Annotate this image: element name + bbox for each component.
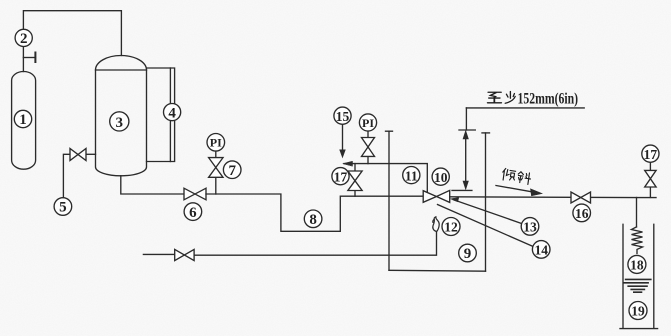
valve under PI right [362,138,375,157]
wire PI-right tap [367,156,369,163]
vessel 3 top seam [96,69,147,71]
gauge PI right [359,114,376,131]
branch header wire [344,164,427,193]
dimension arrow up [463,131,468,139]
valve 6 [184,188,206,200]
valve 5 [70,149,86,161]
label text 倾斜 (drawn glyphs) [502,168,516,181]
svg-text:PI: PI [362,116,374,130]
wire to valve 17 right [649,187,651,197]
node circle 3 [110,112,129,131]
dimension shaft [465,134,467,186]
node circle 17 left [332,168,349,185]
svg-text:1: 1 [19,112,27,128]
valve 17 right [645,170,656,187]
node circle 8 [304,210,322,228]
slope arrow [496,186,534,193]
node circle 2 [15,29,32,46]
node circle 11 [403,167,420,184]
jacket tube 4 [147,68,175,162]
svg-text:8: 8 [309,212,317,228]
pilot valve [175,249,194,260]
test tube walls [622,224,624,328]
svg-text:11: 11 [405,168,418,183]
node circle 9 [459,244,477,262]
node circle 12 [442,218,460,236]
svg-text:16: 16 [575,206,589,221]
cylinder 1 [12,72,36,170]
wire valve5 branch [86,153,96,155]
enclosure right wall [485,133,487,271]
valve 16 [571,192,591,203]
node circle 16 [573,204,591,222]
node circle 1 [14,110,31,127]
dimension text underline [466,107,584,109]
burner valve body [423,190,450,202]
pilot gas line [143,253,174,255]
leader to 14 [438,205,533,247]
dimension upper drop [465,108,467,130]
dimension top tick [459,129,475,131]
node circle 18 [628,255,646,273]
valve 7 (under PI left) [209,158,223,178]
svg-text:12: 12 [444,220,458,235]
dip tube wire [636,198,638,227]
sample line from 15 [342,125,344,151]
svg-text:2: 2 [20,31,28,47]
wire top header from cylinder to vessel [23,11,121,56]
svg-text:9: 9 [464,246,472,262]
enclosure bottom [389,269,486,272]
wire vessel bottom to valve6 [121,176,184,194]
node circle 15 [334,107,351,124]
svg-text:4: 4 [168,105,176,121]
igniter flame 12 [433,217,439,232]
dimension arrow down [463,181,468,189]
leader to 13 [454,200,522,224]
node circle 6 [184,203,202,221]
node circle 14 [532,241,550,259]
svg-text:19: 19 [631,304,645,319]
svg-text:5: 5 [59,200,67,216]
label text 至少 (drawn glyphs) [488,92,532,185]
gauge PI left [207,134,225,152]
svg-text:PI: PI [210,136,222,150]
condenser coil 18 [632,227,643,254]
wire valve17-left branch [354,164,356,171]
node circle 10 [432,168,449,185]
svg-text:13: 13 [523,220,537,235]
svg-text:17: 17 [334,169,348,184]
arrow left on branch start [343,161,353,166]
test tube bottom [620,328,658,330]
node circle 17 right [642,145,659,162]
main pipe right [450,196,656,199]
svg-text:15: 15 [336,109,350,124]
svg-text:18: 18 [630,258,644,273]
node circle 19 [629,302,647,320]
enclosure left wall [388,131,390,270]
svg-text:10: 10 [434,170,448,185]
vessel 3 [96,56,147,176]
svg-text:14: 14 [534,243,548,258]
wire circle2 to cylinder top [22,47,24,72]
regulator tap on cylinder line [23,57,35,59]
svg-text:3: 3 [116,115,124,131]
node circle 4 [164,104,181,121]
wire valve6 to dip [206,194,423,231]
level tick right of burner [452,189,472,191]
valve 17 left [348,171,362,191]
svg-text:17: 17 [644,147,658,162]
node circle 7 [223,161,241,179]
svg-text:7: 7 [228,163,236,179]
svg-text:6: 6 [189,205,197,221]
wire PI-left tap [215,177,217,194]
svg-text:152mm(6in): 152mm(6in) [518,88,579,107]
node circle 13 [521,218,539,236]
node circle 5 [54,198,72,216]
arrow down from 15 [340,150,346,158]
liquid level lines 19 [624,279,651,292]
